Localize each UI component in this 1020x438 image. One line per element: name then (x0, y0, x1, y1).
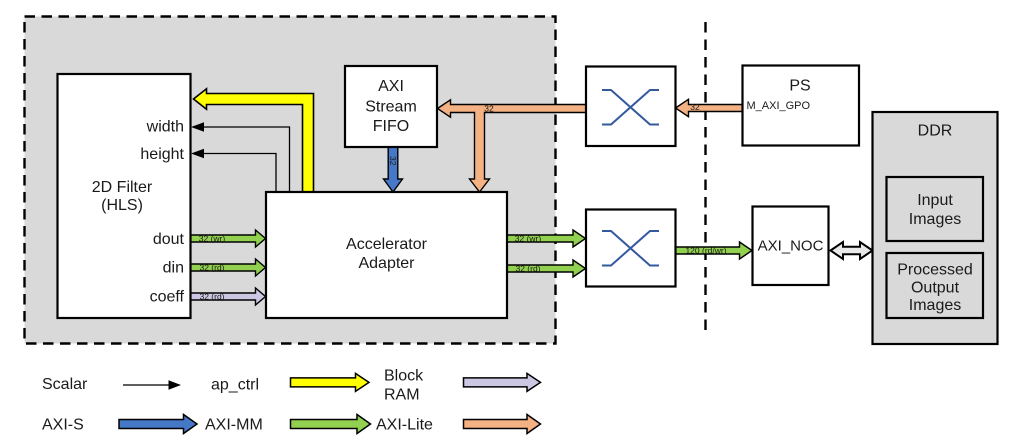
AXI-MM bus 32 (rd) (Adapter to lower switch) (507, 260, 586, 277)
svg-text:Stream: Stream (365, 98, 417, 115)
svg-text:AXI_NOC: AXI_NOC (758, 237, 824, 254)
Block RAM bus coeff 32 (rd) (2D Filter to Adapter) (190, 288, 266, 305)
AXI interconnect switch (lower) (586, 210, 676, 287)
AXI-Lite bus (orange, switch to FIFO with branch to Adapter) (438, 100, 587, 192)
legend AXI-S arrow (blue) (119, 415, 197, 434)
PL region (dashed gray box) (25, 17, 556, 344)
legend AXI-Lite arrow (orange) (464, 415, 541, 434)
svg-text:Output: Output (911, 279, 960, 296)
legend Block RAM arrow (lavender) (464, 373, 541, 391)
bus AXI_NOC to DDR (double-headed) (831, 242, 873, 259)
svg-text:FIFO: FIFO (373, 118, 409, 135)
AXI-MM bus din 32 (rd) (2D Filter to Adapter) (190, 259, 266, 276)
svg-text:32: 32 (388, 156, 398, 166)
Processed Output Images buffer (887, 253, 984, 318)
legend ap_ctrl arrow (yellow) (291, 373, 370, 391)
svg-text:AXI: AXI (378, 78, 404, 95)
svg-text:AXI-S: AXI-S (42, 416, 84, 433)
AXI-Lite bus 32 (PS to upper switch) (676, 99, 743, 116)
svg-text:DDR: DDR (918, 122, 953, 139)
svg-text:AXI-Lite: AXI-Lite (376, 417, 433, 434)
AXI interconnect switch (upper) (586, 67, 676, 147)
svg-text:AXI-MM: AXI-MM (205, 416, 263, 433)
svg-text:Block: Block (384, 367, 424, 384)
svg-text:Images: Images (909, 297, 961, 314)
Input Images buffer (887, 177, 984, 241)
svg-text:32: 32 (484, 103, 494, 113)
svg-text:Accelerator: Accelerator (346, 236, 428, 253)
legend label Block RAM (384, 367, 424, 403)
DDR block (873, 112, 998, 344)
svg-text:120 (rd/wr): 120 (rd/wr) (685, 245, 726, 255)
svg-text:Images: Images (909, 211, 961, 228)
svg-text:Adapter: Adapter (358, 255, 415, 272)
svg-text:32 (rd): 32 (rd) (199, 291, 224, 301)
svg-text:2D Filter: 2D Filter (92, 179, 153, 196)
svg-text:32 (rd): 32 (rd) (199, 262, 224, 272)
legend AXI-MM arrow (green) (291, 415, 371, 434)
2D Filter (HLS) block (58, 74, 191, 318)
svg-text:Input: Input (917, 192, 953, 209)
AXI Stream FIFO block (345, 66, 437, 147)
AXI_NOC block (753, 207, 829, 286)
svg-text:Scalar: Scalar (42, 376, 88, 393)
svg-text:RAM: RAM (384, 386, 420, 403)
svg-text:PS: PS (789, 78, 810, 95)
AXI-MM bus 120 (rd/wr) (lower switch to AXI_NOC) (676, 242, 753, 259)
svg-text:Processed: Processed (897, 262, 973, 279)
svg-text:32: 32 (690, 102, 700, 112)
PS block (743, 66, 860, 146)
svg-text:32 (rd): 32 (rd) (515, 263, 540, 273)
svg-text:width: width (146, 118, 184, 135)
svg-text:ap_ctrl: ap_ctrl (211, 377, 259, 394)
AXI-S bus (blue, FIFO to Adapter) (384, 147, 403, 192)
PS/PL boundary dashed line (704, 22, 706, 331)
wire: scalar height (Adapter to 2D Filter) (191, 149, 276, 192)
svg-text:32 (wr): 32 (wr) (515, 233, 542, 243)
legend scalar arrow (123, 380, 181, 389)
svg-text:(HLS): (HLS) (101, 197, 143, 214)
svg-text:32 (wr): 32 (wr) (199, 233, 226, 243)
svg-text:coeff: coeff (150, 288, 185, 305)
AXI-MM bus dout 32 (wr) (2D Filter to Adapter) (190, 230, 266, 247)
svg-text:din: din (163, 259, 184, 276)
wire: scalar width (Adapter to 2D Filter) (191, 122, 290, 192)
svg-text:M_AXI_GPO: M_AXI_GPO (747, 100, 811, 112)
AXI-MM bus 32 (wr) (Adapter to lower switch) (507, 230, 586, 247)
Accelerator Adapter block (266, 192, 507, 318)
svg-text:height: height (140, 146, 184, 163)
svg-text:dout: dout (153, 231, 185, 248)
ap_ctrl bus (yellow, Adapter to 2D Filter) (194, 89, 314, 192)
